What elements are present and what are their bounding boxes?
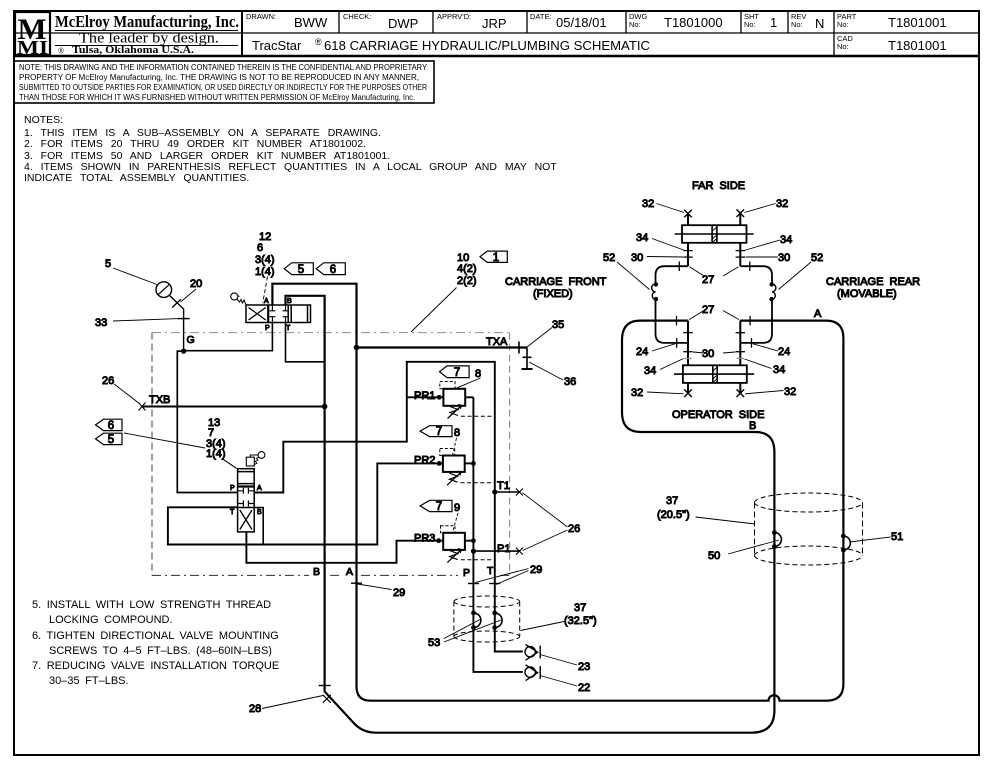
svg-text:®: ® — [58, 47, 64, 56]
svg-text:P1: P1 — [497, 543, 510, 555]
svg-text:32: 32 — [642, 198, 654, 210]
svg-text:(FIXED): (FIXED) — [533, 288, 573, 300]
svg-text:No:: No: — [744, 20, 756, 29]
svg-text:20: 20 — [190, 278, 202, 290]
svg-text:PR3: PR3 — [414, 533, 435, 545]
svg-text:29: 29 — [393, 587, 405, 599]
svg-text:618 CARRIAGE HYDRAULIC/PLUMB: 618 CARRIAGE HYDRAULIC/PLUMBING SCHEMATI… — [324, 38, 650, 53]
svg-text:P: P — [463, 567, 470, 579]
svg-text:30: 30 — [778, 252, 790, 264]
svg-text:TXA: TXA — [486, 336, 508, 348]
svg-text:TracStar: TracStar — [252, 38, 302, 53]
svg-text:OPERATOR SIDE: OPERATOR SIDE — [672, 409, 764, 421]
svg-text:DWP: DWP — [388, 16, 418, 31]
svg-text:MI: MI — [17, 37, 48, 59]
svg-text:Tulsa, Oklahoma U.S.A.: Tulsa, Oklahoma U.S.A. — [72, 45, 194, 56]
svg-text:28: 28 — [249, 703, 261, 715]
svg-text:33: 33 — [95, 317, 107, 329]
svg-text:29: 29 — [530, 564, 542, 576]
svg-text:5: 5 — [105, 258, 111, 270]
svg-text:BWW: BWW — [294, 15, 328, 30]
svg-text:30–35 FT–LBS.: 30–35 FT–LBS. — [49, 675, 129, 687]
svg-text:PR2: PR2 — [414, 455, 435, 467]
svg-text:TXB: TXB — [149, 394, 170, 406]
svg-text:26: 26 — [102, 375, 114, 387]
svg-text:05/18/01: 05/18/01 — [556, 15, 607, 30]
svg-text:1: 1 — [770, 15, 777, 30]
svg-text:T1801000: T1801000 — [664, 15, 723, 30]
svg-text:LOCKING COMPOUND.: LOCKING COMPOUND. — [49, 614, 173, 626]
svg-text:T: T — [286, 325, 291, 332]
svg-text:®: ® — [315, 37, 322, 47]
svg-text:26: 26 — [568, 523, 580, 535]
svg-text:7: 7 — [436, 501, 442, 513]
svg-text:7. REDUCING VALVE INSTALLAT: 7. REDUCING VALVE INSTALLATION TORQUE — [32, 660, 279, 672]
svg-text:No:: No: — [837, 42, 849, 51]
svg-text:3(4): 3(4) — [255, 254, 275, 266]
svg-text:T: T — [230, 509, 235, 516]
svg-text:6: 6 — [257, 242, 263, 254]
svg-text:4(2): 4(2) — [457, 263, 477, 275]
svg-text:G: G — [187, 334, 195, 346]
svg-text:McElroy Manufacturing, Inc.: McElroy Manufacturing, Inc. — [55, 12, 239, 31]
svg-text:6. TIGHTEN DIRECTIONAL VALV: 6. TIGHTEN DIRECTIONAL VALVE MOUNTING — [32, 630, 279, 642]
svg-text:8: 8 — [454, 427, 460, 439]
svg-text:CHECK:: CHECK: — [343, 12, 371, 21]
svg-text:32: 32 — [776, 198, 788, 210]
svg-text:CARRIAGE FRONT: CARRIAGE FRONT — [505, 276, 607, 288]
svg-text:T: T — [487, 565, 494, 577]
svg-text:No:: No: — [791, 20, 803, 29]
svg-text:36: 36 — [564, 376, 576, 388]
svg-text:23: 23 — [578, 661, 590, 673]
svg-text:27: 27 — [702, 274, 714, 286]
svg-text:34: 34 — [780, 234, 792, 246]
svg-text:2(2): 2(2) — [457, 275, 477, 287]
svg-text:CARRIAGE REAR: CARRIAGE REAR — [826, 276, 920, 288]
svg-text:JRP: JRP — [482, 16, 507, 31]
svg-text:27: 27 — [702, 304, 714, 316]
svg-text:(20.5"): (20.5") — [657, 509, 690, 521]
svg-text:30: 30 — [631, 252, 643, 264]
svg-text:24: 24 — [778, 346, 790, 358]
svg-text:5: 5 — [108, 434, 114, 446]
svg-text:52: 52 — [603, 252, 615, 264]
svg-text:B: B — [287, 298, 292, 305]
svg-text:53: 53 — [428, 637, 440, 649]
svg-text:34: 34 — [636, 232, 648, 244]
svg-text:37: 37 — [574, 602, 586, 614]
svg-text:8: 8 — [475, 368, 481, 380]
svg-text:1: 1 — [493, 252, 499, 264]
svg-text:7: 7 — [436, 426, 442, 438]
svg-text:51: 51 — [891, 531, 903, 543]
svg-text:No:: No: — [837, 20, 849, 29]
svg-text:37: 37 — [666, 495, 678, 507]
svg-text:6: 6 — [108, 420, 114, 432]
svg-text:9: 9 — [454, 502, 460, 514]
svg-text:(MOVABLE): (MOVABLE) — [837, 288, 897, 300]
svg-text:T1801001: T1801001 — [888, 15, 947, 30]
svg-text:1(4): 1(4) — [206, 448, 226, 460]
svg-text:A: A — [814, 308, 822, 320]
svg-text:32: 32 — [784, 386, 796, 398]
svg-text:2. FOR ITEMS 20 THRU 49: 2. FOR ITEMS 20 THRU 49 ORDER KIT NUMBER… — [24, 138, 366, 150]
svg-text:6: 6 — [330, 264, 336, 276]
svg-text:THAN THOSE FOR WHICH IT WAS FU: THAN THOSE FOR WHICH IT WAS FURNISHED WI… — [19, 93, 415, 102]
svg-text:NOTE: THIS DRAWING AND THE INF: NOTE: THIS DRAWING AND THE INFORMATION C… — [19, 63, 428, 72]
svg-text:5: 5 — [298, 264, 304, 276]
svg-text:FAR SIDE: FAR SIDE — [692, 180, 745, 192]
svg-text:INDICATE TOTAL ASSEMBLY QUA: INDICATE TOTAL ASSEMBLY QUANTITIES. — [24, 172, 249, 184]
svg-text:T1801001: T1801001 — [888, 38, 947, 53]
svg-text:A: A — [264, 298, 269, 305]
svg-text:SCREWS TO 4–5 FT–LBS. (48–: SCREWS TO 4–5 FT–LBS. (48–60IN–LBS) — [49, 645, 272, 657]
svg-text:B: B — [257, 509, 262, 516]
svg-text:A: A — [257, 485, 262, 492]
svg-text:B: B — [749, 420, 756, 432]
svg-text:50: 50 — [708, 550, 720, 562]
svg-text:DATE:: DATE: — [530, 12, 552, 21]
svg-text:1(4): 1(4) — [255, 266, 275, 278]
svg-text:34: 34 — [773, 364, 785, 376]
svg-text:P: P — [265, 325, 270, 332]
svg-text:34: 34 — [644, 365, 656, 377]
svg-text:B: B — [313, 566, 320, 578]
svg-text:52: 52 — [811, 252, 823, 264]
svg-text:5. INSTALL WITH LOW STRENG: 5. INSTALL WITH LOW STRENGTH THREAD — [32, 599, 271, 611]
svg-text:A: A — [346, 566, 353, 578]
svg-text:PROPERTY OF McElroy Manufactur: PROPERTY OF McElroy Manufacturing, Inc. … — [19, 73, 419, 82]
svg-text:PR1: PR1 — [414, 390, 435, 402]
svg-text:30: 30 — [702, 348, 714, 360]
svg-text:32: 32 — [631, 387, 643, 399]
svg-text:22: 22 — [578, 682, 590, 694]
svg-text:24: 24 — [636, 346, 648, 358]
svg-text:(32.5"): (32.5") — [564, 615, 597, 627]
svg-text:SUBMITTED TO OUTSIDE PARTIES F: SUBMITTED TO OUTSIDE PARTIES FOR EXAMINA… — [19, 83, 427, 92]
svg-text:T1: T1 — [497, 480, 510, 492]
svg-text:DRAWN:: DRAWN: — [246, 12, 276, 21]
svg-text:No:: No: — [629, 20, 641, 29]
svg-text:7: 7 — [454, 367, 460, 379]
svg-text:NOTES:: NOTES: — [24, 114, 63, 126]
svg-text:P: P — [230, 485, 235, 492]
svg-text:N: N — [815, 16, 824, 31]
svg-text:APPRV'D:: APPRV'D: — [437, 12, 471, 21]
svg-text:35: 35 — [552, 319, 564, 331]
